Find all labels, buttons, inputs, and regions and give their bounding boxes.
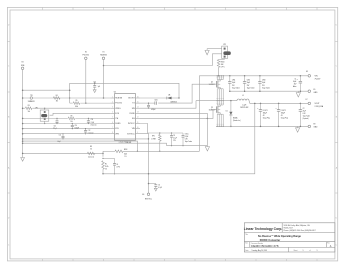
svg-text:Phone: (408)432-1900 Fax: (408: Phone: (408)432-1900 Fax: (408)434-0507	[284, 230, 316, 232]
node TP1 STANDBY	[28, 95, 35, 103]
svg-text:100k: 100k	[75, 106, 78, 108]
op-amp U1 LTC1778EGN controller	[110, 92, 140, 144]
svg-text:C4: C4	[116, 164, 118, 166]
svg-text:2.5V@15A: 2.5V@15A	[315, 105, 324, 108]
svg-text:U1: U1	[114, 92, 116, 94]
svg-text:14: 14	[137, 107, 139, 109]
wire TG to Q1 gate	[158, 84, 216, 103]
svg-text:(OPT): (OPT)	[221, 66, 225, 68]
capacitor C15	[53, 118, 59, 130]
capacitor CVCC	[182, 133, 193, 146]
svg-text:10µF: 10µF	[293, 81, 296, 83]
svg-text:25V: 25V	[173, 140, 176, 142]
svg-text:INTVCC: INTVCC	[128, 123, 135, 125]
svg-text:C1: C1	[294, 78, 296, 80]
wire SW pin to SW bus	[140, 101, 196, 109]
svg-text:C9: C9	[173, 135, 175, 137]
terminal E5 GND	[308, 89, 318, 94]
svg-text:Taiyo Yuden: Taiyo Yuden	[247, 87, 255, 89]
svg-text:0.1µF: 0.1µF	[173, 137, 177, 139]
transistor Q2	[209, 101, 224, 127]
svg-text:25V: 25V	[247, 85, 250, 87]
svg-text:Linear Technology Corp.: Linear Technology Corp.	[244, 227, 283, 231]
ground left bus	[21, 158, 25, 162]
svg-text:10µF: 10µF	[262, 82, 265, 84]
svg-text:CIN3: CIN3	[262, 80, 265, 82]
svg-text:10µF: 10µF	[232, 82, 235, 84]
svg-text:CIN1: CIN1	[232, 80, 235, 82]
svg-text:CB1: CB1	[155, 100, 158, 102]
svg-text:C10: C10	[93, 81, 96, 83]
capacitor C3	[148, 183, 162, 191]
svg-text:R6: R6	[71, 116, 73, 118]
wire VFB row	[23, 133, 111, 135]
wire VOUT bus	[249, 101, 308, 104]
svg-text:R200: R200	[221, 61, 225, 63]
svg-text:RUN/SS: RUN/SS	[115, 98, 123, 100]
svg-text:TP1: TP1	[30, 95, 33, 97]
ground at JP2	[205, 49, 209, 55]
ground VIN bus	[296, 91, 300, 97]
svg-text:16: 16	[137, 96, 139, 98]
svg-text:CMDSH-3: CMDSH-3	[170, 101, 177, 103]
wire VIN ground bus	[230, 90, 308, 92]
capacitor C8	[147, 103, 156, 112]
terminal E1 RUN/SS	[100, 51, 107, 98]
svg-text:Q1: Q1	[211, 82, 213, 84]
svg-text:Tuesday, May 24, 2001: Tuesday, May 24, 2001	[252, 250, 268, 252]
svg-text:1000pF: 1000pF	[75, 128, 80, 130]
svg-text:39.2k: 39.2k	[105, 166, 109, 168]
svg-text:BOOST: BOOST	[128, 98, 135, 100]
svg-text:10: 10	[137, 127, 139, 129]
svg-text:(OPT): (OPT)	[116, 166, 120, 168]
svg-text:C11: C11	[59, 134, 62, 136]
svg-text:Taiyo Yuden: Taiyo Yuden	[303, 116, 311, 118]
terminal E8 GND	[308, 123, 318, 128]
capacitor CIN2	[243, 75, 255, 92]
wire vcc ground rail	[167, 145, 208, 147]
svg-text:CEP125-1R2: CEP125-1R2	[240, 107, 248, 109]
svg-text:SGND: SGND	[115, 123, 121, 125]
svg-text:1: 1	[303, 250, 304, 252]
ground vcc rail	[205, 146, 209, 151]
svg-text:R5: R5	[76, 100, 78, 102]
svg-text:CIN2: CIN2	[247, 80, 250, 82]
svg-text:6.3V: 6.3V	[303, 113, 306, 115]
resistor R200	[217, 59, 225, 77]
svg-text:7V-25V: 7V-25V	[315, 79, 322, 81]
svg-text:C15: C15	[54, 126, 57, 128]
wire SGND return row	[23, 143, 167, 145]
svg-text:R8: R8	[90, 146, 92, 148]
svg-text:C16: C16	[91, 119, 94, 121]
svg-text:R1: R1	[105, 163, 107, 165]
capacitor CIN1	[228, 75, 240, 92]
svg-text:L1: L1	[242, 95, 244, 97]
wire SGND row	[23, 123, 111, 125]
wire RON return row	[23, 138, 149, 140]
jumper JP2	[222, 44, 231, 58]
wire RUN/SS to JP2	[104, 54, 222, 66]
svg-text:PGOOD: PGOOD	[83, 55, 90, 57]
wire left bus	[22, 70, 24, 158]
svg-text:E7: E7	[306, 99, 308, 101]
resistor R4	[53, 95, 70, 103]
wire INTVCC pin to filter	[140, 124, 183, 134]
svg-text:C3: C3	[158, 185, 160, 187]
svg-text:COUT1: COUT1	[263, 110, 268, 112]
svg-text:RF1: RF1	[152, 136, 155, 138]
svg-text:25V: 25V	[262, 85, 265, 87]
svg-text:10µF: 10µF	[247, 82, 250, 84]
resistor R1 divider	[102, 161, 109, 174]
svg-text:180µF: 180µF	[281, 113, 285, 115]
svg-text:E1: E1	[103, 51, 105, 53]
capacitor COUT2	[275, 103, 288, 128]
wire FCB row	[50, 113, 111, 115]
svg-text:15: 15	[137, 101, 139, 103]
terminal E2 PGOOD	[83, 51, 90, 103]
svg-text:Taiyo Yuden: Taiyo Yuden	[262, 87, 270, 89]
svg-text:E4: E4	[22, 62, 24, 64]
resistor R6 ITH	[22, 116, 110, 124]
svg-text:6.3V: 6.3V	[185, 138, 188, 140]
terminal E7 VOUT	[306, 99, 324, 108]
wire ION row	[23, 128, 111, 130]
capacitor C9	[170, 132, 177, 146]
wire JP2 top to ground	[207, 48, 222, 50]
wire PGND bus	[216, 125, 308, 127]
svg-text:Q2: Q2	[211, 107, 213, 109]
capacitor CIN3	[258, 75, 270, 92]
svg-text:Taiyo Yuden: Taiyo Yuden	[185, 141, 193, 143]
svg-text:Taiyo Yuden: Taiyo Yuden	[232, 87, 240, 89]
wire EXTVCC pin to E6	[140, 134, 149, 193]
resistor R5 pullup	[70, 100, 111, 108]
svg-text:E6: E6	[142, 194, 144, 196]
svg-text:10k: 10k	[28, 111, 31, 113]
capacitor C1	[293, 75, 302, 92]
svg-text:E5: E5	[314, 89, 316, 91]
terminal E6 EXTVCC	[142, 193, 152, 201]
svg-text:No Rsense™ Wide Operating Rang: No Rsense™ Wide Operating Range	[258, 235, 302, 238]
svg-text:DB: DB	[168, 95, 170, 97]
resistor R3	[22, 105, 110, 113]
svg-text:JP1: JP1	[35, 107, 38, 109]
jumper JP1	[35, 107, 49, 124]
svg-text:1: 1	[317, 250, 318, 252]
svg-text:RON: RON	[124, 149, 127, 151]
svg-text:D1: D1	[226, 110, 228, 112]
wire BG to Q2 gate	[140, 110, 217, 119]
wire SW bus	[196, 100, 237, 102]
ground PGND bus	[296, 126, 300, 132]
capacitor C16	[87, 118, 97, 127]
svg-text:Sanyo Poly: Sanyo Poly	[263, 118, 270, 120]
svg-text:C14: C14	[75, 125, 78, 127]
resistor R8	[87, 146, 94, 158]
capacitor C14	[71, 123, 79, 130]
capacitor C10	[93, 81, 100, 92]
svg-text:C12: C12	[88, 130, 91, 132]
svg-text:12: 12	[137, 117, 139, 119]
diode DB	[140, 95, 180, 104]
wire PGND pin to ground rail	[140, 112, 207, 114]
svg-text:E2: E2	[85, 51, 87, 53]
svg-text:180µF: 180µF	[263, 113, 267, 115]
transistor Q1	[209, 75, 224, 101]
svg-text:CVCC: CVCC	[185, 133, 189, 135]
svg-text:DEMO BOARD 378: DEMO BOARD 378	[251, 244, 278, 248]
wire vertical to vcc ground rail	[206, 113, 208, 145]
svg-text:EXTVCC: EXTVCC	[145, 199, 153, 201]
wire feedback from VOUT	[103, 103, 255, 173]
wire FB row	[23, 152, 103, 154]
svg-text:162k: 162k	[124, 154, 127, 156]
svg-text:35V: 35V	[294, 84, 297, 86]
svg-text:13: 13	[137, 112, 139, 114]
svg-text:SW: SW	[132, 108, 135, 110]
svg-text:R4: R4	[56, 95, 58, 97]
wire VIN bus	[199, 76, 308, 152]
diode D1	[226, 100, 241, 127]
svg-text:1µF: 1µF	[98, 86, 101, 88]
svg-text:Sanyo Poly: Sanyo Poly	[281, 118, 288, 120]
wire INTVCC branch row	[23, 89, 70, 91]
title block	[244, 223, 335, 252]
svg-text:10K: 10K	[221, 64, 224, 66]
svg-text:1.2µH: 1.2µH	[242, 104, 246, 106]
capacitor C4 optional	[102, 158, 120, 175]
wire RON return row2	[23, 141, 138, 151]
svg-text:0.33µF: 0.33µF	[151, 109, 156, 111]
svg-text:PGND: PGND	[129, 113, 135, 115]
svg-text:47µF: 47µF	[303, 111, 306, 113]
svg-text:Size: Size	[245, 243, 248, 245]
svg-text:4V: 4V	[263, 115, 265, 117]
svg-text:24k: 24k	[70, 121, 72, 123]
svg-text:RUN/SS: RUN/SS	[100, 55, 107, 57]
svg-text:EXTVCC: EXTVCC	[127, 133, 135, 135]
svg-text:C2: C2	[303, 108, 305, 110]
svg-text:COUT2: COUT2	[281, 110, 286, 112]
wire FB vertical	[102, 151, 104, 157]
svg-text:DC/DC Converter: DC/DC Converter	[260, 239, 280, 242]
svg-text:25V: 25V	[232, 85, 235, 87]
capacitor C11	[57, 133, 64, 143]
terminal E3 VIN	[306, 71, 321, 81]
wire RUN/SS row	[23, 97, 111, 99]
resistor RON	[103, 149, 199, 158]
svg-text:PGOOD: PGOOD	[115, 103, 122, 105]
wire INTVCC rail	[70, 83, 179, 103]
svg-text:R3: R3	[28, 105, 30, 107]
svg-text:4.7µF: 4.7µF	[185, 136, 189, 138]
svg-text:E3: E3	[306, 71, 308, 73]
inductor L1	[237, 95, 249, 109]
svg-text:(Diodes Inc): (Diodes Inc)	[233, 120, 241, 122]
capacitor COUT1	[257, 103, 270, 128]
svg-text:E8: E8	[314, 123, 316, 125]
svg-text:4.7µF: 4.7µF	[158, 187, 162, 189]
terminal E4 FCB	[21, 62, 25, 70]
svg-text:4V: 4V	[281, 115, 283, 117]
resistor RF1	[151, 132, 161, 152]
svg-text:VRNG: VRNG	[115, 108, 121, 110]
capacitor CB1	[140, 100, 158, 105]
capacitor C2	[299, 103, 310, 128]
capacitor C12 optional	[84, 128, 94, 135]
